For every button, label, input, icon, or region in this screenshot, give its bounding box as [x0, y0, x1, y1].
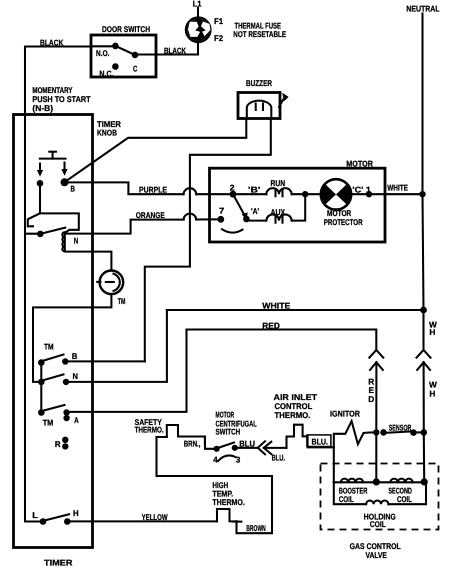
svg-text:COIL: COIL — [397, 494, 412, 504]
wire motor to neutral (WHITE) — [385, 193, 423, 195]
wire purple into motor — [196, 193, 233, 195]
momentary hook contact — [28, 213, 40, 226]
svg-text:COIL: COIL — [370, 519, 386, 529]
wire sensor to neutral rail — [414, 431, 424, 433]
momentary contact arrow right — [61, 163, 67, 176]
timer knob pointer diagonal to node B — [65, 119, 246, 182]
node run/aux junction — [302, 191, 308, 197]
node second/neutral — [421, 478, 428, 485]
wire C to box edge — [135, 53, 156, 55]
svg-text:3: 3 — [236, 455, 241, 465]
svg-text:THERMO.: THERMO. — [212, 497, 244, 507]
svg-text:BRN.,: BRN., — [184, 438, 201, 448]
coil SECOND — [390, 479, 412, 483]
node motor white junction — [419, 191, 425, 197]
svg-text:RUN: RUN — [271, 178, 286, 188]
wire bridge to N coil — [40, 213, 79, 232]
wire rail to blade pivot — [25, 233, 40, 235]
main timer switch blade — [40, 228, 65, 234]
blade TM-B — [43, 355, 64, 361]
wire aux left to coil — [246, 220, 266, 222]
orange hump over buzzer wire — [184, 214, 197, 220]
wire orange into motor pin 7 — [196, 218, 221, 220]
svg-text:N: N — [73, 371, 79, 381]
wire neutral rail top — [423, 14, 424, 350]
svg-text:SWITCH: SWITCH — [216, 427, 241, 437]
svg-text:VALVE: VALVE — [366, 550, 388, 560]
timer contact L: node — [40, 518, 47, 525]
svg-text:THERMO.: THERMO. — [135, 425, 164, 435]
svg-text:RED: RED — [262, 320, 280, 330]
node 7 — [217, 216, 224, 223]
connector male arrow blu — [264, 442, 287, 454]
svg-text:B: B — [71, 183, 76, 193]
centrifugal alternate arc 4-3 — [218, 455, 236, 461]
door switch blade N.O. to C — [115, 46, 135, 55]
gas control valve dashed box — [321, 464, 439, 530]
svg-text:NOT RESETABLE: NOT RESETABLE — [233, 29, 286, 39]
svg-text:R: R — [55, 439, 61, 449]
node A lower terminal — [63, 415, 69, 421]
node N contact — [63, 379, 69, 385]
node R terminal lower — [62, 443, 68, 449]
node centrifugal 4 — [214, 446, 220, 452]
blade TM-N — [43, 374, 64, 380]
centrifugal blade — [218, 443, 234, 448]
svg-text:TM: TM — [118, 296, 126, 306]
svg-text:TM: TM — [43, 418, 54, 428]
node 2 — [230, 191, 237, 198]
node 'C' 1 — [366, 191, 372, 197]
svg-text:'A': 'A' — [251, 206, 259, 216]
node centrifugal 3 — [232, 445, 238, 451]
svg-text:BLACK: BLACK — [164, 46, 186, 56]
wire blu to ignitor — [308, 446, 334, 448]
wire red riser to ignitor node — [375, 432, 377, 482]
wire pivot link vertical — [40, 363, 42, 413]
coil N (timer solenoid) — [62, 232, 65, 251]
momentary contact arrow left — [37, 164, 43, 177]
node N.O. — [112, 43, 119, 50]
svg-text:D: D — [368, 394, 374, 404]
wire run coil to junction — [292, 193, 321, 195]
svg-text:WHITE: WHITE — [262, 301, 290, 311]
svg-text:AUX.: AUX. — [271, 207, 288, 217]
coil AUX — [266, 215, 291, 221]
buzzer box — [238, 93, 280, 119]
node left contact — [37, 180, 44, 187]
motor blade 2 to aux — [233, 194, 248, 220]
BRN terminal tick — [204, 438, 206, 445]
connector female on red riser — [369, 350, 383, 358]
svg-text:F2: F2 — [214, 33, 223, 43]
svg-text:TM: TM — [44, 342, 54, 352]
purple hump over buzzer wire — [184, 188, 197, 194]
wire B contact to buzzer chain — [65, 360, 145, 362]
connector female on neutral rail — [417, 350, 431, 358]
wire N coil to orange — [65, 220, 184, 251]
node B contact — [62, 358, 68, 364]
node R terminal upper — [62, 437, 68, 443]
wire timer motor return to N pivot — [33, 294, 111, 382]
svg-text:IGNITOR: IGNITOR — [330, 408, 360, 418]
svg-text:PURPLE: PURPLE — [139, 185, 167, 195]
svg-text:N.C.: N.C. — [99, 69, 113, 79]
svg-text:7: 7 — [219, 205, 225, 215]
motor box — [210, 168, 386, 242]
wire N coil bottom to timer motor — [65, 252, 112, 271]
wire fuse to door switch (BLACK right) — [156, 42, 198, 55]
wire RED horizontal — [187, 330, 377, 350]
blade TM-A — [43, 405, 65, 411]
coil RUN — [266, 188, 291, 194]
svg-text:N.O.: N.O. — [96, 48, 110, 58]
wire switch to connector — [235, 447, 258, 449]
svg-text:THERMO.: THERMO. — [275, 410, 311, 420]
svg-text:PROTECTOR: PROTECTOR — [324, 217, 363, 227]
svg-text:KNOB: KNOB — [97, 128, 117, 138]
svg-text:BUZZER: BUZZER — [246, 78, 272, 88]
timer cam contact TM-N: node pivot — [38, 379, 45, 386]
svg-text:YELLOW: YELLOW — [142, 512, 168, 522]
svg-text:F1: F1 — [214, 16, 223, 26]
connector male arrow on red riser — [370, 362, 383, 432]
wire left contact down — [39, 183, 41, 213]
node white junction — [420, 307, 427, 314]
wire 2 to run coil — [233, 193, 266, 195]
timer box — [14, 115, 93, 548]
wire holding to right node — [388, 482, 426, 504]
node B — [61, 178, 69, 186]
node aux left — [243, 216, 250, 223]
node blade pivot — [37, 231, 44, 238]
motor protector — [320, 179, 351, 209]
node booster/red — [373, 478, 380, 485]
blade L-H — [46, 514, 70, 520]
wire booster row — [334, 481, 424, 483]
wire N contact to white riser — [66, 310, 167, 382]
svg-text:H: H — [73, 508, 79, 518]
node C — [132, 52, 139, 59]
momentary push-button T symbol — [40, 152, 66, 159]
door switch box — [91, 35, 156, 77]
node sensor right — [410, 429, 417, 436]
connector male arrow on neutral rail — [417, 362, 430, 432]
wire L1 to fuse — [197, 8, 199, 19]
thermal fuse F1/F2 — [186, 18, 210, 42]
node sensor neutral — [421, 429, 428, 436]
high temp thermostat bump — [217, 509, 237, 521]
svg-text:N: N — [74, 235, 79, 245]
svg-text:H: H — [429, 327, 435, 337]
wire aux coil up to junction — [292, 194, 306, 220]
terminal tick high temp — [233, 521, 241, 523]
svg-text:DOOR SWITCH: DOOR SWITCH — [102, 24, 150, 34]
wire safety to centrifugal switch — [205, 437, 214, 449]
ignitor heater zigzag — [334, 421, 376, 447]
wire into door switch N.O. — [91, 45, 115, 47]
node A contact — [63, 409, 69, 415]
coil BOOSTER — [341, 479, 363, 483]
boxed BLU. label — [307, 435, 331, 447]
svg-text:MOTOR: MOTOR — [346, 158, 373, 168]
timer cam contact TM-A: node pivot — [38, 409, 45, 416]
wire ignitor junction down to booster row — [333, 447, 335, 482]
safety thermostat bump — [167, 425, 205, 437]
svg-text:C: C — [133, 64, 137, 74]
coil HOLDING — [366, 500, 388, 504]
svg-text:COIL: COIL — [339, 494, 354, 504]
svg-text:2: 2 — [230, 182, 235, 192]
wire node B to purple — [65, 182, 184, 194]
wire heater return riser — [157, 437, 273, 533]
svg-text:ORANGE: ORANGE — [136, 210, 165, 220]
wire YELLOW — [67, 520, 217, 522]
node sensor left — [380, 429, 387, 436]
svg-text:WHITE: WHITE — [387, 183, 408, 193]
svg-text:SENSOR: SENSOR — [389, 423, 412, 433]
svg-text:NEUTRAL: NEUTRAL — [406, 4, 439, 14]
wire BLACK left + rail down left side — [25, 47, 91, 522]
svg-text:4: 4 — [213, 455, 218, 465]
wire buzzer right lead down to B contact — [145, 119, 271, 362]
wire holding branch — [334, 482, 366, 504]
buzzer coil dome — [247, 101, 271, 119]
timer motor TM — [97, 271, 123, 295]
wire WHITE horizontal — [167, 309, 424, 311]
svg-text:BLU.: BLU. — [312, 436, 329, 446]
svg-text:H: H — [429, 389, 435, 399]
wire neutral rail to valve — [423, 432, 425, 482]
connector female blu — [258, 441, 265, 454]
centrifugal actuator arc under 7 — [222, 229, 243, 232]
node ignitor out — [373, 429, 379, 435]
node N.C. — [112, 63, 119, 70]
svg-text:BROWN: BROWN — [246, 523, 266, 533]
buzzer coil ticks — [255, 104, 257, 111]
buzzer strike arrow — [279, 93, 289, 107]
svg-text:(N-B): (N-B) — [32, 103, 53, 113]
svg-text:A: A — [74, 415, 79, 425]
wire A contact to red riser — [67, 330, 187, 412]
svg-text:L: L — [32, 510, 38, 520]
timer cam contact TM-B: node pivot — [38, 359, 45, 366]
svg-text:TIMER: TIMER — [44, 558, 73, 568]
svg-text:B: B — [72, 351, 78, 361]
air inlet thermostat bump — [287, 425, 308, 448]
svg-text:BLU.: BLU. — [272, 452, 286, 462]
node H — [64, 518, 71, 525]
sensor element — [384, 431, 414, 433]
wire protector to node C — [351, 193, 385, 195]
svg-text:'B': 'B' — [248, 185, 260, 195]
svg-text:'C' 1: 'C' 1 — [352, 185, 371, 195]
